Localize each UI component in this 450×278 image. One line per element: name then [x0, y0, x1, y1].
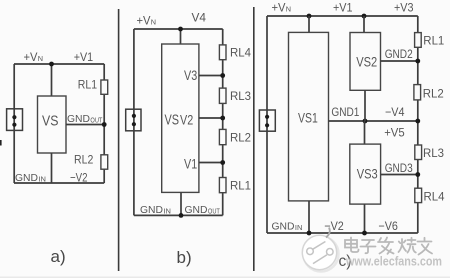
resistor RL1 (c) — [415, 33, 422, 48]
svg-text:RL1: RL1 — [423, 34, 444, 48]
battery source c — [259, 110, 275, 131]
svg-text:+V3: +V3 — [394, 1, 414, 15]
node dot: b V3 junction — [220, 73, 225, 78]
resistor RL1 (b) — [219, 178, 226, 193]
svg-text:IN: IN — [38, 176, 46, 183]
wire: c GND2 stub — [381, 60, 418, 62]
regulator VS3 — [350, 144, 381, 204]
wire: circuit b right load column — [222, 29, 224, 215]
separator line between b and c — [253, 7, 255, 271]
wire: c VS1 ground drop — [308, 201, 310, 233]
svg-text:RL2: RL2 — [423, 87, 444, 101]
wire: circuit c right load column — [417, 16, 419, 233]
svg-text:VS3: VS3 — [357, 166, 378, 181]
svg-text:GND2: GND2 — [385, 47, 413, 61]
svg-text:+V: +V — [24, 50, 38, 64]
wire: c VS2 ground drop — [364, 90, 366, 121]
svg-text:GND: GND — [140, 204, 163, 216]
node dot: c bottom rail VS3 junction — [362, 231, 367, 236]
svg-text:−V2: −V2 — [324, 219, 344, 233]
node dot: b top rail junction — [178, 27, 183, 32]
watermark char 电 — [345, 238, 359, 253]
svg-text:RL2: RL2 — [74, 152, 94, 166]
svg-text:VS: VS — [165, 111, 180, 128]
node dot: c GND3 junction — [415, 172, 420, 177]
resistor RL1 (a) — [101, 80, 108, 94]
wire: c GND3 stub — [381, 174, 418, 176]
wire: c GND1 mid rail — [329, 120, 418, 122]
svg-text:GND: GND — [67, 113, 90, 125]
svg-text:VS: VS — [42, 113, 58, 130]
label GNDin (b) — [140, 204, 171, 216]
label GNDin (a) — [15, 172, 46, 184]
svg-text:N: N — [286, 5, 291, 14]
svg-text:+V: +V — [137, 14, 151, 28]
svg-text:OUT: OUT — [90, 117, 103, 124]
wire: circuit a left supply column — [13, 64, 15, 183]
svg-text:VS2: VS2 — [356, 55, 377, 70]
svg-text:RL3: RL3 — [423, 146, 444, 160]
svg-text:VS1: VS1 — [298, 111, 318, 126]
svg-text:RL1: RL1 — [230, 179, 251, 193]
node dot: c mid rail VS2 junction — [363, 119, 368, 124]
svg-text:V3: V3 — [184, 68, 197, 83]
wire: circuit c top rail — [267, 15, 418, 17]
label GNDin (c) — [272, 221, 303, 233]
watermark char 烧 — [399, 238, 416, 253]
wire: b V3 stub — [199, 75, 223, 77]
wire: circuit c bottom rail — [267, 232, 418, 234]
label +VN (a) — [24, 50, 44, 64]
svg-text:RL4: RL4 — [230, 46, 251, 60]
node dot: c bottom rail VS1 junction — [307, 231, 312, 236]
svg-text:GND: GND — [185, 204, 208, 216]
wire: b VS input drop — [180, 29, 182, 44]
resistor RL2 (a) — [101, 155, 108, 169]
svg-text:N: N — [38, 54, 43, 63]
regulator VS (b) — [162, 44, 199, 192]
node dot: b V1 junction — [220, 160, 225, 165]
wire: b V2 stub — [199, 117, 223, 119]
wire: b V1 stub — [199, 162, 223, 164]
wire: b VS ground drop — [180, 192, 182, 215]
svg-text:GND: GND — [272, 221, 295, 233]
node dot: a GNDout junction — [102, 122, 107, 127]
wire: circuit b left supply column — [133, 29, 135, 215]
svg-text:GND3: GND3 — [385, 161, 413, 175]
svg-text:−V6: −V6 — [378, 219, 398, 233]
svg-text:RL1: RL1 — [78, 78, 98, 92]
svg-text:V1: V1 — [184, 157, 197, 172]
battery source a — [7, 109, 23, 131]
bottom edge line — [0, 276, 450, 278]
svg-text:V2: V2 — [180, 112, 193, 127]
node dot: a top rail junction — [49, 62, 54, 67]
svg-text:b): b) — [177, 248, 192, 267]
node dot: c top rail VS2 junction — [362, 14, 367, 19]
watermark char 友 — [418, 238, 433, 255]
resistor RL3 (b) — [219, 88, 226, 103]
resistor RL2 (b) — [219, 129, 226, 144]
resistor RL4 (c) — [415, 188, 422, 202]
svg-text:RL4: RL4 — [424, 190, 445, 204]
edge artifact mark left — [0, 140, 2, 146]
watermark char 子 — [361, 240, 376, 253]
regulator VS (a) — [38, 96, 67, 153]
svg-text:+V: +V — [272, 1, 286, 15]
wire: circuit b top rail — [134, 28, 223, 30]
node dot: c mid rail right junction — [415, 119, 420, 124]
watermark logo circle — [302, 228, 338, 272]
wire: c VS3 input drop — [364, 121, 366, 144]
svg-text:RL3: RL3 — [230, 89, 251, 103]
wire: circuit c left supply column — [266, 16, 268, 233]
wire: circuit a top rail — [14, 63, 104, 65]
svg-text:+V1: +V1 — [74, 50, 94, 64]
wire: c VS1 input drop — [308, 16, 310, 32]
wire: a VS ground drop — [51, 153, 53, 183]
battery source b — [126, 109, 141, 131]
watermark char 发 — [378, 238, 394, 254]
wire: c VS3 ground drop — [364, 204, 366, 233]
label GNDout (a) — [67, 113, 103, 125]
node dot: b V2 junction — [220, 116, 225, 121]
svg-text:−V4: −V4 — [385, 105, 405, 119]
svg-text:a): a) — [51, 247, 66, 266]
wire: c VS2 input drop — [363, 16, 365, 33]
wire: a GNDout stub — [66, 124, 104, 126]
label GNDout (b) — [185, 204, 221, 216]
resistor RL4 (b) — [219, 45, 226, 60]
svg-text:RL2: RL2 — [230, 130, 251, 144]
svg-text:+V1: +V1 — [333, 1, 353, 15]
node dot: c GND2 junction — [415, 59, 420, 64]
resistor RL2 (c) — [414, 85, 421, 100]
wire: circuit a right load column — [103, 64, 105, 183]
node dot: c top rail VS1 junction — [307, 14, 312, 19]
svg-text:GND: GND — [15, 172, 38, 184]
svg-text:IN: IN — [163, 208, 171, 215]
svg-text:N: N — [151, 18, 156, 27]
label +VN (b) — [137, 14, 157, 28]
separator line between a and b — [118, 9, 120, 271]
svg-text:+V5: +V5 — [384, 126, 405, 140]
wire: circuit a bottom rail — [14, 182, 104, 184]
node dot: b ground junction — [179, 213, 184, 218]
svg-text:OUT: OUT — [208, 208, 221, 215]
svg-text:IN: IN — [295, 225, 303, 232]
svg-text:www.elecfans.com: www.elecfans.com — [345, 254, 442, 269]
regulator VS1 — [289, 32, 329, 201]
wire: circuit a VS input drop — [51, 64, 53, 96]
svg-text:GND1: GND1 — [331, 105, 359, 119]
svg-text:V4: V4 — [192, 11, 207, 25]
resistor RL3 (c) — [415, 145, 422, 160]
regulator VS2 — [350, 33, 381, 91]
label +VN (c) — [272, 1, 292, 15]
wire: circuit b bottom rail — [134, 214, 223, 216]
svg-text:−V2: −V2 — [70, 171, 88, 185]
